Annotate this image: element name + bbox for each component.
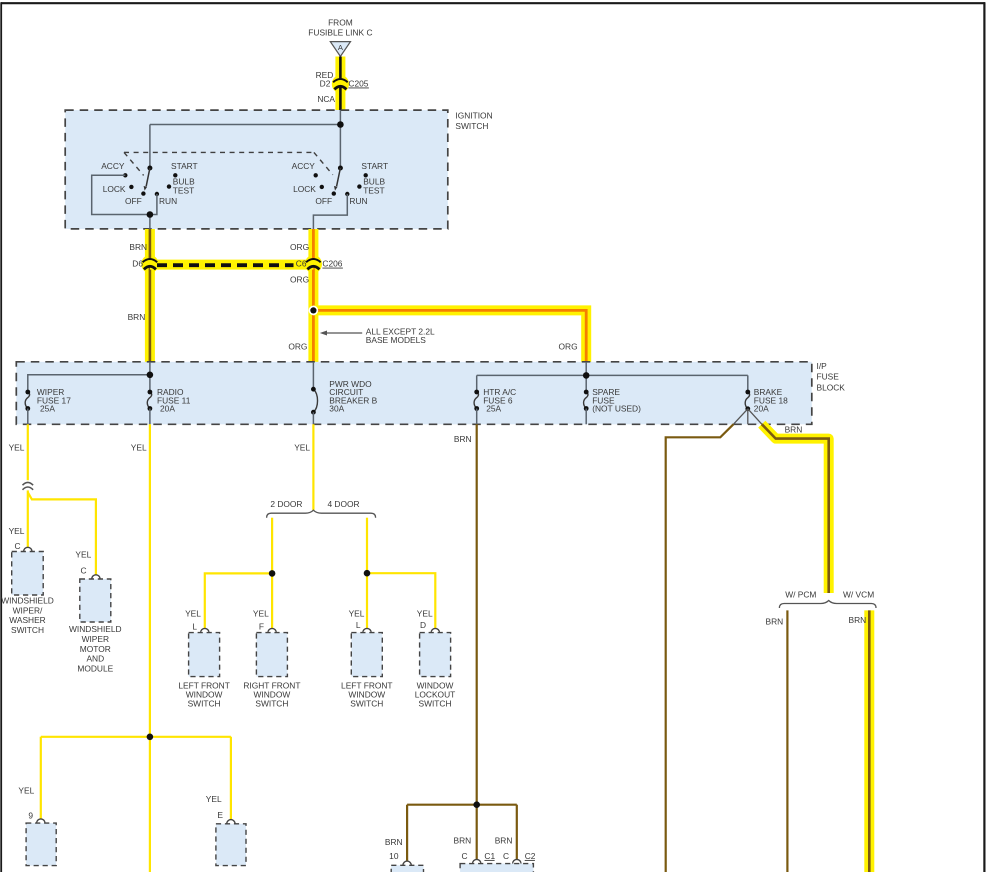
label ORG (below C6) [290,275,309,285]
svg-text:E: E [217,810,223,820]
pin L (left front window switch 2dr) [192,621,209,632]
wire: bus to HTR fuse [476,375,478,392]
svg-text:20A: 20A [754,404,769,414]
fuse HTR A/C FUSE 6 25A [474,387,516,413]
contact START (wafer 1) [171,161,198,178]
wire YEL to windshield wiper/washer switch [27,490,29,547]
svg-text:OFF: OFF [315,196,332,206]
label YEL [417,609,433,619]
inline connector on wiper feed [23,482,34,489]
right front window switch [243,633,300,709]
pin C (washer switch) [14,541,32,551]
left front window switch (4 door) [341,633,393,709]
svg-text:FUSIBLE LINK C: FUSIBLE LINK C [308,27,372,37]
svg-text:30A: 30A [329,404,344,414]
svg-text:BRN: BRN [129,242,147,252]
svg-text:YEL: YEL [9,526,25,536]
pin D (window lockout switch) [420,620,440,633]
windshield wiper motor and module [69,579,122,673]
label YEL (pwr wdo output) [294,442,310,452]
svg-text:YEL: YEL [294,442,310,452]
label YEL [185,609,201,619]
switch wafer 2 pivot [338,166,343,171]
pin L (left front window switch 4dr) [356,620,371,633]
svg-text:TEST: TEST [173,186,194,196]
node A: FROM FUSIBLE LINK C (power feed triangle) [308,17,372,56]
contact LOCK (wafer 2) [293,184,324,194]
label YEL [18,786,34,796]
svg-text:WINDSHIELD: WINDSHIELD [69,624,122,634]
svg-text:OFF: OFF [125,196,142,206]
I/P fuse block box [16,361,845,424]
svg-text:C: C [503,851,509,861]
fuse WIPER FUSE 17 25A [25,387,71,413]
svg-text:2 DOOR: 2 DOOR [270,499,302,509]
svg-text:ORG: ORG [288,341,307,351]
wire: BRN entry inside fuse block [149,362,151,375]
wire: wiper fuse to block edge [27,409,29,425]
wire BRN center drop [476,805,478,859]
wire BRN right drop [516,805,518,859]
svg-text:ACCY: ACCY [292,161,316,171]
wire: HTR fuse to block edge [476,409,478,425]
junction: 4-door split [364,570,371,577]
pin C / connector C1 [461,851,495,864]
svg-text:ACCY: ACCY [101,161,125,171]
label BRN (highlighted branch) [785,424,803,434]
junction: fuse feed split [147,372,154,379]
switch wafer 2 lever (pointing at OFF) [334,168,340,191]
wire: feed to radio fuse [149,375,151,392]
svg-text:LOCK: LOCK [293,184,316,194]
contact RUN (wafer 1) [155,192,177,206]
svg-text:WIPER: WIPER [82,634,109,644]
svg-text:ORG: ORG [290,242,309,252]
svg-text:SWITCH: SWITCH [418,699,451,709]
component box (pin 10) [391,865,423,872]
wire RED D2 feed (highlighted) from fusible link to ignition switch [332,57,349,111]
contact BULB TEST (wafer 2) [357,177,385,196]
svg-text:C2: C2 [525,851,536,861]
wire BRN brake fuse left branch (long drop) [666,424,734,872]
svg-text:D: D [420,620,426,630]
svg-text:BLOCK: BLOCK [817,382,846,392]
svg-text:BRN: BRN [454,836,472,846]
label YEL [206,794,222,804]
junction: radio circuit split [147,734,154,741]
svg-text:YEL: YEL [253,609,269,619]
svg-text:SWITCH: SWITCH [255,699,288,709]
wire YEL left drop [40,737,42,819]
wire: wafer2 RUN to output drop [313,194,347,230]
wire: brake fuse split prongs [734,409,762,424]
wire BRN left drop [406,805,408,861]
wire YEL radio fuse long drop [149,424,151,737]
pin 10 [389,851,411,866]
wire YEL to right front window switch [271,573,273,628]
svg-text:BRN: BRN [454,434,472,444]
svg-text:W/ PCM: W/ PCM [785,590,816,600]
wire BRN D6 (highlighted) ignition to fuse block [141,229,158,362]
svg-text:SWITCH: SWITCH [350,699,383,709]
switch wafer 1 pivot [147,166,152,171]
svg-text:C1: C1 [484,851,495,861]
svg-text:RUN: RUN [159,196,177,206]
label BRN [454,836,472,846]
svg-text:FROM: FROM [328,17,353,27]
wire: breaker to block edge [312,412,314,424]
svg-text:25A: 25A [486,404,501,414]
contact ACCY (wafer 1) [101,161,127,178]
junction: wafer1 output [147,211,154,218]
wire: feed into ignition switch (gray, inside box) [339,110,341,168]
svg-text:L: L [356,620,361,630]
label ORG (left, at fuse block) [288,341,307,351]
left front window switch (2 door) [178,633,230,709]
label RED [316,70,334,80]
wire: wafer1 ACCY loop to output [92,175,157,214]
svg-text:SWITCH: SWITCH [455,121,488,131]
svg-text:4 DOOR: 4 DOOR [327,499,359,509]
wire: branch to left switch pole [150,125,341,169]
svg-text:BRN: BRN [766,617,784,627]
svg-text:YEL: YEL [349,609,365,619]
svg-text:BASE MODELS: BASE MODELS [366,335,426,345]
svg-text:IGNITION: IGNITION [455,110,492,120]
component box (pin 9) [26,823,56,866]
svg-text:D6: D6 [132,259,143,269]
svg-text:W/ VCM: W/ VCM [843,590,874,600]
label BRN [766,617,784,627]
svg-text:BRN: BRN [785,424,803,434]
svg-text:10: 10 [389,851,399,861]
wire ORG C6 (highlighted) ignition to fuse block [305,229,322,362]
wire ORG branch (highlighted) to right side of fuse block [313,310,586,362]
label YEL [349,609,365,619]
component box (pin E) [216,824,246,866]
label BRN (htr a/c output) [454,434,472,444]
label BRN [849,615,867,625]
svg-text:BRN: BRN [385,837,403,847]
wire YEL to left front window switch (4dr) [366,573,368,628]
ignition switch box [65,110,492,229]
svg-text:BRN: BRN [849,615,867,625]
wire BRN htr a/c long drop [476,424,478,804]
label NCA [317,94,335,104]
connector C205 (terminals D2) [320,78,369,89]
pin 9 [28,811,45,824]
svg-text:C: C [14,541,20,551]
svg-text:YEL: YEL [417,609,433,619]
label BRN [385,837,403,847]
fuse SPARE FUSE (NOT USED) [584,387,642,413]
wire YEL split to components [41,736,231,738]
wire: spare fuse stub [585,409,587,425]
wire: radio fuse to block edge [149,409,151,425]
contact OFF (wafer 2) [315,191,336,205]
wire: feed to wiper fuse [28,375,150,392]
svg-text:RUN: RUN [349,196,367,206]
svg-text:YEL: YEL [206,794,222,804]
svg-text:MODULE: MODULE [77,663,113,673]
fuse RADIO FUSE 11 20A [147,387,190,413]
svg-text:ORG: ORG [559,341,578,351]
pin F (right front window switch) [259,621,276,632]
wire YEL from wiper fuse [27,424,29,480]
connector C206 (dashed tie between D6 and C6) [132,259,343,270]
label YEL (wiper fuse output) [9,442,25,452]
svg-text:ORG: ORG [290,275,309,285]
label YEL (radio fuse output) [131,442,147,452]
label YEL [9,526,25,536]
wire YEL to window lockout switch [367,573,435,628]
wire BRN W/ PCM drop [786,610,788,872]
svg-text:F: F [259,621,264,631]
svg-text:YEL: YEL [18,786,34,796]
wire YEL pwr wdo drop [312,424,314,510]
wire: bus to spare fuse [585,375,587,392]
svg-text:BRN: BRN [495,836,513,846]
label YEL [253,609,269,619]
pin C (wiper motor) [80,566,100,579]
svg-text:SWITCH: SWITCH [188,699,221,709]
contact START (wafer 2) [361,161,388,178]
svg-text:C206: C206 [322,259,342,269]
wire YEL right drop [230,737,232,819]
pin E [217,810,235,824]
svg-text:MOTOR: MOTOR [80,644,111,654]
option brace 2 DOOR / 4 DOOR [267,499,376,518]
svg-text:C205: C205 [348,78,368,88]
svg-text:C6: C6 [296,259,307,269]
svg-text:START: START [361,161,388,171]
junction: ORG branch (white ringed) [309,306,319,316]
wire YEL to left front window switch (2dr) [205,573,272,628]
svg-text:LOCK: LOCK [103,184,126,194]
svg-text:WASHER: WASHER [9,615,45,625]
svg-text:20A: 20A [160,404,175,414]
svg-text:START: START [171,161,198,171]
wire: ORG entry to breaker [312,362,314,389]
windshield wiper/washer switch [1,552,54,635]
wire YEL 2-door branch [271,518,273,574]
junction: 2-door split [269,570,276,577]
svg-text:WIPER/: WIPER/ [13,605,43,615]
svg-text:(NOT USED): (NOT USED) [592,404,641,414]
svg-text:YEL: YEL [9,442,25,452]
svg-text:TEST: TEST [363,186,384,196]
label BRN (above D6) [129,242,147,252]
wire BRN brake fuse right branch (highlighted) [762,424,829,593]
junction: feed branch [337,121,344,128]
label ORG (right, at fuse block) [559,341,578,351]
option brace W/ PCM / W/ VCM [779,590,876,609]
contact BULB TEST (wafer 1) [167,177,195,196]
wire: wafer1 output drop [149,215,151,230]
svg-text:C: C [461,851,467,861]
svg-text:NCA: NCA [317,94,335,104]
svg-text:L: L [192,621,197,631]
svg-text:YEL: YEL [131,442,147,452]
svg-text:9: 9 [28,811,33,821]
wire BRN split bus [407,804,517,806]
svg-text:YEL: YEL [75,550,91,560]
contact RUN (wafer 2) [345,192,367,206]
component box (pins C1 C2) [460,864,533,872]
junction: brn split [473,801,480,808]
label BRN [495,836,513,846]
label ORG (above C6) [290,242,309,252]
label BRN (below D6) [128,312,146,322]
wire: bus to brake fuse [747,375,749,392]
contact ACCY (wafer 2) [292,161,318,178]
mechanical linkage (dashed) between switch wafers [124,152,333,175]
window lockout switch [415,633,456,709]
svg-text:I/P: I/P [817,361,828,371]
svg-text:D2: D2 [320,78,331,88]
svg-text:FUSE: FUSE [817,372,840,382]
pin C / connector C2 [503,851,536,864]
circuit breaker PWR WDO CIRCUIT BREAKER B 30A [311,379,378,414]
svg-text:WINDSHIELD: WINDSHIELD [1,596,54,606]
svg-text:C: C [80,566,86,576]
switch wafer 1 lever (pointing at OFF) [144,168,150,191]
contact OFF (wafer 1) [125,191,146,205]
fuse BRAKE FUSE 18 20A [745,387,788,413]
svg-text:YEL: YEL [185,609,201,619]
callout arrow: ALL EXCEPT 2.2L BASE MODELS [320,327,435,346]
wire: ORG entry right side / bus [477,362,748,375]
svg-text:25A: 25A [40,404,55,414]
junction: right bus [583,372,590,379]
wire YEL 4-door branch [366,518,368,574]
svg-text:BRN: BRN [128,312,146,322]
svg-text:SWITCH: SWITCH [11,625,44,635]
svg-text:AND: AND [86,654,104,664]
wire BRN W/ VCM drop (highlighted) [864,610,874,872]
wire YEL branch to wiper motor [28,492,96,574]
wire YEL continues off page [149,737,151,872]
contact LOCK (wafer 1) [103,184,134,194]
label YEL [75,550,91,560]
